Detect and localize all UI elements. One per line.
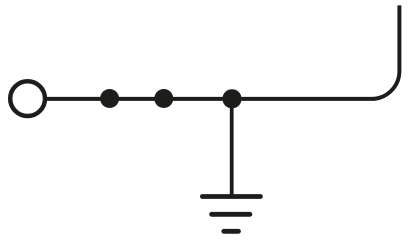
wire [46,5,399,99]
node A [100,89,119,108]
node B [154,89,173,108]
terminal circle [10,81,45,116]
ground [202,197,260,232]
wire [230,99,234,197]
node C [222,89,241,108]
